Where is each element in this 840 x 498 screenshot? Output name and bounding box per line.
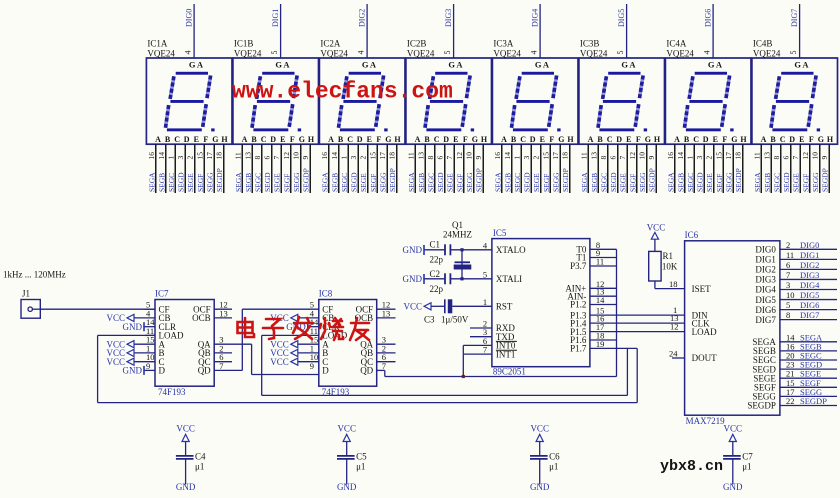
svg-text:IC5: IC5 (493, 228, 507, 238)
svg-text:C3: C3 (424, 315, 435, 325)
svg-text:A: A (283, 60, 290, 70)
svg-text:15: 15 (714, 152, 723, 160)
svg-text:12: 12 (282, 152, 291, 160)
svg-text:GND: GND (123, 322, 143, 332)
svg-text:3: 3 (786, 280, 790, 290)
svg-text:IC4B: IC4B (753, 39, 773, 49)
svg-text:DIG7: DIG7 (790, 9, 799, 27)
svg-text:SEGC: SEGC (253, 173, 262, 192)
svg-text:22p: 22p (430, 255, 444, 265)
svg-text:H: H (221, 135, 228, 144)
svg-text:2: 2 (786, 240, 790, 250)
svg-text:A: A (328, 135, 334, 144)
svg-text:D: D (184, 135, 190, 144)
svg-text:C6: C6 (549, 452, 560, 462)
svg-text:IC3A: IC3A (493, 39, 514, 49)
svg-text:F: F (290, 135, 295, 144)
svg-text:SEGG: SEGG (552, 172, 561, 192)
svg-text:E: E (713, 135, 718, 144)
svg-text:7: 7 (219, 361, 223, 371)
svg-text:SEGB: SEGB (590, 173, 599, 192)
svg-text:9: 9 (820, 156, 829, 160)
svg-text:B: B (511, 135, 517, 144)
svg-text:D: D (443, 135, 449, 144)
svg-text:SEGE: SEGE (792, 173, 801, 192)
svg-text:μ1: μ1 (356, 461, 365, 471)
svg-text:3: 3 (176, 156, 185, 160)
svg-text:DIG1: DIG1 (755, 255, 776, 265)
svg-text:DIG0: DIG0 (185, 9, 194, 27)
svg-text:SEGA: SEGA (493, 172, 502, 192)
svg-text:SEGDP: SEGDP (734, 168, 743, 192)
svg-text:G: G (362, 60, 369, 70)
svg-text:SEGG: SEGG (292, 172, 301, 192)
svg-text:10: 10 (292, 152, 301, 160)
svg-text:IC1B: IC1B (234, 39, 254, 49)
svg-text:SEGD: SEGD (696, 172, 705, 192)
svg-text:13: 13 (589, 152, 598, 160)
svg-text:SEGDP: SEGDP (475, 168, 484, 192)
svg-text:A: A (802, 60, 809, 70)
svg-text:VQE24: VQE24 (407, 49, 435, 59)
svg-text:SEGB: SEGB (503, 173, 512, 192)
svg-text:5: 5 (616, 51, 625, 55)
svg-text:RST: RST (496, 302, 513, 312)
svg-text:C: C (780, 135, 786, 144)
svg-text:17: 17 (724, 152, 733, 160)
svg-text:SEGB: SEGB (676, 173, 685, 192)
svg-text:DIG5: DIG5 (617, 9, 626, 27)
svg-text:SEGDP: SEGDP (747, 401, 776, 411)
svg-text:A: A (456, 60, 463, 70)
svg-text:QD: QD (198, 366, 211, 376)
svg-text:DIG2: DIG2 (800, 260, 819, 270)
svg-text:VQE24: VQE24 (234, 49, 262, 59)
svg-text:SEGA: SEGA (753, 172, 762, 192)
svg-text:μ1: μ1 (195, 461, 204, 471)
svg-text:G: G (621, 60, 628, 70)
svg-text:F: F (809, 135, 814, 144)
svg-text:LOAD: LOAD (692, 327, 717, 337)
svg-text:DOUT: DOUT (692, 353, 717, 363)
svg-text:5: 5 (443, 51, 452, 55)
svg-text:89C2051: 89C2051 (493, 367, 526, 377)
svg-text:J1: J1 (22, 289, 30, 299)
svg-text:1: 1 (339, 156, 348, 160)
svg-text:D: D (322, 366, 329, 376)
svg-text:18: 18 (734, 152, 743, 160)
svg-text:SEGDP: SEGDP (821, 168, 830, 192)
svg-text:IC3B: IC3B (580, 39, 600, 49)
svg-text:1: 1 (166, 156, 175, 160)
svg-text:A: A (588, 135, 594, 144)
svg-text:XTALO: XTALO (496, 245, 526, 255)
svg-text:3: 3 (522, 156, 531, 160)
svg-text:SEGC: SEGC (686, 173, 695, 192)
svg-text:C4: C4 (195, 452, 206, 462)
svg-text:22: 22 (786, 396, 795, 406)
svg-text:GND: GND (723, 482, 743, 492)
svg-text:μ1: μ1 (742, 461, 751, 471)
svg-text:DIG3: DIG3 (800, 270, 819, 280)
svg-text:XTALI: XTALI (496, 274, 522, 284)
svg-text:SEGF: SEGF (282, 174, 291, 192)
svg-text:9: 9 (310, 361, 314, 371)
svg-text:SEGF: SEGF (369, 174, 378, 192)
svg-text:G: G (385, 135, 391, 144)
svg-text:B: B (165, 135, 171, 144)
svg-text:5: 5 (786, 300, 790, 310)
svg-text:13: 13 (219, 308, 228, 318)
svg-text:9: 9 (647, 156, 656, 160)
svg-text:C: C (347, 135, 353, 144)
svg-text:D: D (789, 135, 795, 144)
svg-text:11: 11 (579, 152, 588, 159)
svg-text:2: 2 (532, 156, 541, 160)
svg-text:GND: GND (176, 482, 196, 492)
svg-text:SEGC: SEGC (167, 173, 176, 192)
svg-text:10K: 10K (662, 262, 678, 272)
svg-text:7: 7 (483, 345, 487, 355)
svg-text:SEGDP: SEGDP (302, 168, 311, 192)
svg-text:C7: C7 (742, 452, 753, 462)
svg-text:GND: GND (337, 482, 357, 492)
svg-text:SEGE: SEGE (446, 173, 455, 192)
svg-text:DIG5: DIG5 (755, 295, 776, 305)
svg-text:G: G (535, 60, 542, 70)
svg-text:9: 9 (301, 156, 310, 160)
svg-text:SEGD: SEGD (782, 172, 791, 192)
svg-text:D: D (703, 135, 709, 144)
svg-text:17: 17 (205, 152, 214, 160)
svg-text:G: G (189, 60, 196, 70)
svg-text:G: G (448, 60, 455, 70)
svg-text:H: H (740, 135, 747, 144)
svg-text:DIG1: DIG1 (800, 250, 819, 260)
svg-text:7: 7 (618, 156, 627, 160)
svg-text:E: E (540, 135, 545, 144)
svg-text:A: A (370, 60, 377, 70)
svg-text:C: C (434, 135, 440, 144)
svg-text:B: B (251, 135, 257, 144)
svg-text:GND: GND (530, 482, 550, 492)
svg-text:5: 5 (270, 51, 279, 55)
svg-text:F: F (203, 135, 208, 144)
svg-text:B: B (424, 135, 430, 144)
svg-text:GND: GND (123, 366, 143, 376)
svg-text:11: 11 (406, 152, 415, 159)
svg-text:D: D (270, 135, 276, 144)
svg-text:11: 11 (752, 152, 761, 159)
svg-text:SEGC: SEGC (513, 173, 522, 192)
svg-text:B: B (684, 135, 690, 144)
svg-text:SEGA: SEGA (407, 172, 416, 192)
svg-text:VCC: VCC (176, 424, 195, 434)
svg-text:VQE24: VQE24 (147, 49, 175, 59)
svg-text:G: G (472, 135, 478, 144)
svg-text:DIG5: DIG5 (800, 290, 819, 300)
svg-text:VCC: VCC (337, 424, 356, 434)
svg-text:IC7: IC7 (155, 289, 169, 299)
svg-text:DIG7: DIG7 (800, 310, 819, 320)
svg-text:18: 18 (669, 279, 678, 289)
svg-text:1: 1 (483, 297, 487, 307)
svg-text:G: G (731, 135, 737, 144)
svg-text:7: 7 (791, 156, 800, 160)
svg-text:16: 16 (666, 152, 675, 160)
svg-text:DIG6: DIG6 (755, 305, 776, 315)
svg-text:SEGC: SEGC (772, 173, 781, 192)
svg-text:DIG3: DIG3 (444, 9, 453, 27)
svg-text:12: 12 (670, 322, 679, 332)
svg-text:H: H (394, 135, 401, 144)
svg-text:22p: 22p (430, 284, 444, 294)
svg-text:14: 14 (503, 152, 512, 160)
svg-text:SEGA: SEGA (147, 172, 156, 192)
svg-text:D: D (159, 366, 166, 376)
svg-text:QD: QD (360, 366, 373, 376)
svg-text:SEGA: SEGA (234, 172, 243, 192)
svg-text:G: G (794, 60, 801, 70)
svg-text:P1.2: P1.2 (570, 300, 586, 310)
svg-text:DIG4: DIG4 (755, 285, 776, 295)
svg-text:C: C (520, 135, 526, 144)
svg-text:DIG2: DIG2 (358, 9, 367, 27)
svg-text:A: A (197, 60, 204, 70)
svg-text:5: 5 (483, 269, 487, 279)
svg-text:VCC: VCC (270, 357, 289, 367)
svg-text:DIG6: DIG6 (704, 9, 713, 27)
svg-text:4: 4 (483, 240, 488, 250)
svg-text:6: 6 (263, 156, 272, 160)
svg-text:13: 13 (243, 152, 252, 160)
svg-text:ISET: ISET (692, 284, 712, 294)
svg-text:P1.7: P1.7 (570, 344, 587, 354)
svg-text:D: D (616, 135, 622, 144)
svg-text:E: E (367, 135, 372, 144)
svg-text:SEGF: SEGF (628, 174, 637, 192)
svg-text:SEGE: SEGE (705, 173, 714, 192)
svg-text:18: 18 (561, 152, 570, 160)
svg-text:SEGDP: SEGDP (388, 168, 397, 192)
svg-text:G: G (558, 135, 564, 144)
svg-text:SEGF: SEGF (542, 174, 551, 192)
svg-text:ybx8.cn: ybx8.cn (660, 458, 723, 475)
svg-text:H: H (481, 135, 488, 144)
svg-text:18: 18 (388, 152, 397, 160)
svg-text:DIG0: DIG0 (800, 240, 819, 250)
svg-text:74F193: 74F193 (158, 387, 186, 397)
svg-text:8: 8 (253, 156, 262, 160)
svg-text:G: G (212, 135, 218, 144)
svg-text:MAX7219: MAX7219 (686, 416, 726, 426)
svg-text:G: G (299, 135, 305, 144)
svg-text:C: C (174, 135, 180, 144)
svg-text:9: 9 (146, 361, 150, 371)
svg-text:C1: C1 (430, 239, 441, 249)
svg-text:A: A (716, 60, 723, 70)
svg-text:14: 14 (676, 152, 685, 160)
svg-text:SEGC: SEGC (426, 173, 435, 192)
svg-text:A: A (674, 135, 680, 144)
svg-text:SEGD: SEGD (436, 172, 445, 192)
svg-text:1: 1 (512, 156, 521, 160)
svg-text:7: 7 (445, 156, 454, 160)
svg-text:IC8: IC8 (319, 289, 333, 299)
svg-text:D: D (530, 135, 536, 144)
svg-text:1: 1 (685, 156, 694, 160)
svg-text:16: 16 (493, 152, 502, 160)
svg-text:SEGG: SEGG (465, 172, 474, 192)
svg-text:VCC: VCC (403, 302, 422, 312)
svg-text:DIG6: DIG6 (800, 300, 819, 310)
svg-text:G: G (275, 60, 282, 70)
svg-text:SEGC: SEGC (599, 173, 608, 192)
svg-text:SEGD: SEGD (263, 172, 272, 192)
svg-text:G: G (645, 135, 651, 144)
svg-text:A: A (415, 135, 421, 144)
svg-text:DIG0: DIG0 (755, 245, 776, 255)
svg-text:24MHZ: 24MHZ (443, 230, 472, 240)
svg-text:IC6: IC6 (685, 230, 699, 240)
svg-text:H: H (827, 135, 834, 144)
svg-text:SEGDP: SEGDP (215, 168, 224, 192)
svg-text:SEGE: SEGE (359, 173, 368, 192)
svg-text:SEGF: SEGF (196, 174, 205, 192)
svg-text:R1: R1 (663, 251, 674, 261)
svg-text:GND: GND (403, 274, 423, 284)
svg-text:12: 12 (455, 152, 464, 160)
svg-text:7: 7 (382, 361, 386, 371)
svg-text:SEGB: SEGB (157, 173, 166, 192)
svg-text:GND: GND (403, 245, 423, 255)
svg-text:3: 3 (349, 156, 358, 160)
svg-text:15: 15 (195, 152, 204, 160)
svg-text:IC2B: IC2B (407, 39, 427, 49)
svg-text:P3.7: P3.7 (570, 261, 587, 271)
svg-text:13: 13 (762, 152, 771, 160)
svg-text:6: 6 (609, 156, 618, 160)
svg-text:SEGE: SEGE (619, 173, 628, 192)
svg-text:14: 14 (157, 152, 166, 160)
svg-text:E: E (453, 135, 458, 144)
svg-text:DIG7: DIG7 (755, 315, 776, 325)
svg-text:SEGE: SEGE (532, 173, 541, 192)
svg-text:9: 9 (474, 156, 483, 160)
svg-text:SEGG: SEGG (725, 172, 734, 192)
svg-text:IC2A: IC2A (320, 39, 341, 49)
svg-text:μ1: μ1 (549, 461, 558, 471)
svg-text:SEGA: SEGA (580, 172, 589, 192)
svg-text:A: A (761, 135, 767, 144)
svg-text:SEGG: SEGG (206, 172, 215, 192)
svg-text:6: 6 (782, 156, 791, 160)
svg-text:SEGA: SEGA (320, 172, 329, 192)
svg-text:13: 13 (382, 308, 391, 318)
svg-text:6: 6 (436, 156, 445, 160)
svg-text:SEGB: SEGB (763, 173, 772, 192)
svg-text:SEGF: SEGF (715, 174, 724, 192)
svg-text:7: 7 (272, 156, 281, 160)
svg-text:24: 24 (669, 348, 678, 358)
svg-text:5: 5 (789, 51, 798, 55)
svg-text:F: F (376, 135, 381, 144)
svg-text:SEGD: SEGD (523, 172, 532, 192)
svg-text:4: 4 (184, 51, 193, 55)
svg-text:SEGF: SEGF (801, 174, 810, 192)
svg-text:SEGB: SEGB (330, 173, 339, 192)
svg-text:SEGDP: SEGDP (561, 168, 570, 192)
svg-text:A: A (242, 135, 248, 144)
svg-text:1μ/50V: 1μ/50V (441, 315, 469, 325)
svg-text:C5: C5 (356, 452, 367, 462)
svg-text:11: 11 (786, 250, 794, 260)
svg-text:E: E (280, 135, 285, 144)
svg-text:SEGD: SEGD (177, 172, 186, 192)
svg-text:16: 16 (320, 152, 329, 160)
svg-text:SEGB: SEGB (417, 173, 426, 192)
svg-text:SEGG: SEGG (638, 172, 647, 192)
svg-text:12: 12 (628, 152, 637, 160)
svg-text:VQE24: VQE24 (580, 49, 608, 59)
svg-text:2: 2 (705, 156, 714, 160)
svg-text:Q1: Q1 (452, 220, 463, 230)
svg-text:C2: C2 (430, 269, 441, 279)
svg-text:SEGA: SEGA (666, 172, 675, 192)
svg-text:A: A (155, 135, 161, 144)
svg-text:10: 10 (786, 290, 795, 300)
svg-text:INT1: INT1 (496, 349, 516, 359)
svg-text:C: C (261, 135, 267, 144)
svg-text:SEGG: SEGG (811, 172, 820, 192)
svg-text:B: B (338, 135, 344, 144)
svg-text:VQE24: VQE24 (753, 49, 781, 59)
svg-text:IC1A: IC1A (147, 39, 168, 49)
svg-text:E: E (626, 135, 631, 144)
svg-text:10: 10 (465, 152, 474, 160)
svg-text:18: 18 (215, 152, 224, 160)
svg-text:IC4A: IC4A (666, 39, 687, 49)
svg-text:F: F (549, 135, 554, 144)
svg-text:H: H (308, 135, 315, 144)
svg-text:F: F (636, 135, 641, 144)
svg-text:7: 7 (786, 270, 790, 280)
svg-text:DIG2: DIG2 (755, 265, 776, 275)
svg-text:SEGC: SEGC (340, 173, 349, 192)
svg-text:H: H (654, 135, 661, 144)
svg-text:VQE24: VQE24 (493, 49, 521, 59)
svg-text:F: F (722, 135, 727, 144)
svg-text:A: A (629, 60, 636, 70)
svg-text:SEGB: SEGB (244, 173, 253, 192)
svg-text:8: 8 (786, 310, 790, 320)
svg-text:B: B (597, 135, 603, 144)
svg-text:SEGD: SEGD (350, 172, 359, 192)
svg-text:2: 2 (186, 156, 195, 160)
svg-text:VCC: VCC (530, 424, 549, 434)
svg-text:8: 8 (599, 156, 608, 160)
svg-text:B: B (770, 135, 776, 144)
svg-text:8: 8 (426, 156, 435, 160)
svg-text:SEGD: SEGD (609, 172, 618, 192)
svg-text:SEGE: SEGE (186, 173, 195, 192)
svg-text:VCC: VCC (647, 223, 666, 233)
svg-text:12: 12 (801, 152, 810, 160)
svg-text:1kHz ... 120MHz: 1kHz ... 120MHz (3, 270, 66, 280)
svg-text:4: 4 (357, 51, 366, 55)
svg-text:SEGDP: SEGDP (800, 396, 827, 406)
svg-text:SEGG: SEGG (379, 172, 388, 192)
